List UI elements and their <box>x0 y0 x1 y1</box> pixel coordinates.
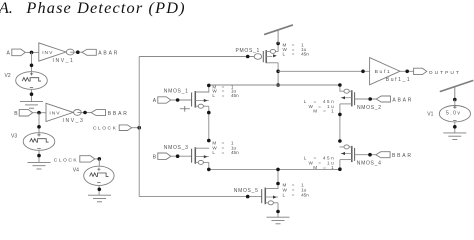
wire NMOS_2 drain to rail <box>339 85 341 91</box>
svg-text:M: M <box>313 109 317 114</box>
pmos PMOS_1 <box>254 49 278 63</box>
svg-text:Phase Detector (PD): Phase Detector (PD) <box>25 0 185 17</box>
junction Buf1 output <box>405 70 409 74</box>
wire Buf1 to OUTPUT <box>400 70 414 72</box>
junction at NMOS_1 gate wire <box>176 98 180 102</box>
nmos NMOS_3 <box>192 147 209 164</box>
junction below V2 <box>30 92 34 96</box>
svg-text:INV: INV <box>49 110 60 116</box>
input port CLOCK <box>119 125 132 131</box>
svg-text:1: 1 <box>331 165 335 170</box>
svg-text:BBAR: BBAR <box>392 153 413 159</box>
wire internal node rail <box>209 168 340 170</box>
svg-text:ABAR: ABAR <box>392 97 413 103</box>
junction NMOS_5 drain stub <box>276 182 280 186</box>
svg-text:M: M <box>313 165 317 170</box>
junction node X at Buf1 wire <box>276 70 280 74</box>
svg-text:V1: V1 <box>427 111 433 117</box>
wire NMOS_3 source to rail <box>208 162 210 169</box>
output port BBAR <box>91 110 105 116</box>
junction NMOS_5 drain on rail <box>276 168 280 172</box>
voltage source V4 <box>73 166 114 185</box>
wire node X to Buf1 <box>278 70 370 72</box>
junction below V3 <box>37 154 41 158</box>
wire V3 to ground <box>38 150 40 162</box>
wire port A to NMOS_1 gate <box>171 99 192 101</box>
wire V2 to ground <box>31 89 33 101</box>
junction at NMOS_2 gate <box>368 97 372 101</box>
output port ABAR <box>82 49 96 55</box>
svg-text:L: L <box>212 150 215 155</box>
svg-text:A.: A. <box>0 0 13 17</box>
wire NMOS_2 source down <box>339 104 341 141</box>
svg-text:=: = <box>222 93 225 98</box>
svg-text:CLOCK: CLOCK <box>54 158 78 164</box>
wire power to V1 <box>454 100 456 106</box>
svg-text:=: = <box>323 165 326 170</box>
nmos NMOS_1 <box>192 91 209 108</box>
voltage source V1 <box>427 106 470 122</box>
junction NMOS_5 source <box>276 210 280 214</box>
svg-text:V4: V4 <box>73 167 79 173</box>
inverter INV_3 <box>46 103 84 124</box>
junction NMOS_1 source <box>207 111 211 115</box>
wire down to V4 <box>98 159 100 166</box>
svg-text:=: = <box>323 109 326 114</box>
svg-text:L: L <box>304 156 307 161</box>
svg-text:L: L <box>283 52 286 57</box>
voltage source V2 <box>5 72 48 90</box>
svg-text:=: = <box>318 160 321 165</box>
wire PMOS_1 source up <box>277 43 279 51</box>
junction at PMOS_1 gate <box>246 55 250 59</box>
port B at NMOS_3 <box>158 153 171 159</box>
inverter INV_1 <box>39 43 75 64</box>
ground below V2 <box>20 102 43 109</box>
svg-text:B: B <box>14 111 18 117</box>
junction above V1 <box>453 98 457 102</box>
junction NMOS_4 source on rail <box>338 167 342 171</box>
wire NMOS_5 source to ground <box>277 203 279 217</box>
port BBAR at NMOS_4 <box>376 152 390 158</box>
svg-text:45n: 45n <box>231 93 239 98</box>
junction INV_3 output <box>83 111 87 115</box>
wire V4 to ground <box>98 185 100 195</box>
svg-text:OUTPUT: OUTPUT <box>429 70 461 76</box>
wire clock bus to NMOS_5 gate <box>139 196 262 198</box>
ground below V3 <box>28 162 51 169</box>
svg-text:BBAR: BBAR <box>108 111 129 117</box>
ground below V4 <box>88 195 111 202</box>
svg-text:=: = <box>318 104 321 109</box>
wire INV_1 out <box>70 51 82 53</box>
svg-text:NMOS_2: NMOS_2 <box>357 105 382 111</box>
wire clock bus to PMOS_1 gate <box>139 56 254 58</box>
junction NMOS_1 drain <box>207 84 211 88</box>
node A junction <box>30 51 34 55</box>
voltage source V3 <box>11 133 55 151</box>
svg-text:L: L <box>212 93 215 98</box>
junction NMOS_4 drain <box>338 139 342 143</box>
junction below V1 <box>453 125 457 129</box>
svg-text:V3: V3 <box>11 133 17 139</box>
wire B to INV_3 <box>33 112 46 114</box>
wire NMOS_1 source down <box>208 106 210 140</box>
junction at NMOS_5 gate <box>246 195 250 199</box>
junction NMOS_3 source on rail <box>207 168 211 172</box>
svg-text:Buf1: Buf1 <box>375 69 392 75</box>
buffer Buf1 <box>370 58 412 85</box>
port ABAR at NMOS_2 <box>376 96 390 102</box>
junction NMOS_2 source <box>338 113 342 117</box>
svg-text:45n: 45n <box>231 150 239 155</box>
svg-text:INV: INV <box>42 50 53 56</box>
wire CLOCK port to V4 <box>95 158 100 160</box>
ground below V1 <box>443 133 466 140</box>
wire NMOS_5 drain to rail <box>277 169 279 188</box>
wire A to INV_1 <box>25 51 39 53</box>
svg-text:INV_3: INV_3 <box>63 118 85 124</box>
svg-text:L: L <box>304 99 307 104</box>
junction CLOCK on bus <box>137 126 141 130</box>
input port A <box>12 49 25 56</box>
wire A node to V2 <box>31 52 33 71</box>
nmos NMOS_2 <box>340 89 355 106</box>
junction below V4 <box>98 188 102 192</box>
junction PMOS_1 source <box>276 42 280 46</box>
wire clock bus vertical <box>138 57 140 197</box>
port CLOCK at V4 <box>80 156 95 162</box>
junction INV_1 output <box>76 50 80 54</box>
svg-text:NMOS_1: NMOS_1 <box>164 89 189 95</box>
node B junction <box>37 111 41 115</box>
svg-text:B: B <box>153 154 157 160</box>
svg-text:A: A <box>7 51 11 57</box>
svg-text:1: 1 <box>331 109 335 114</box>
port A at NMOS_1 <box>158 97 171 103</box>
wire B node to V3 <box>38 113 40 133</box>
nmos NMOS_4 <box>340 145 355 162</box>
junction at NMOS_3 gate wire <box>176 154 180 158</box>
svg-text:A: A <box>153 98 157 104</box>
svg-text:=: = <box>314 156 317 161</box>
output port OUTPUT <box>414 68 427 74</box>
junction NMOS_3 drain <box>207 139 211 143</box>
junction node X on rail <box>276 83 280 87</box>
svg-text:=: = <box>222 150 225 155</box>
svg-text:ABAR: ABAR <box>98 51 119 57</box>
svg-text:45n: 45n <box>301 192 309 197</box>
wire CLOCK to bus <box>132 127 139 129</box>
junction NMOS_2 drain <box>338 83 342 87</box>
ground below NMOS_5 <box>267 217 290 224</box>
nmos NMOS_5 <box>262 188 278 205</box>
junction above V4 <box>98 157 102 161</box>
wire node X rail <box>209 84 340 86</box>
svg-text:PMOS_1: PMOS_1 <box>236 48 261 54</box>
svg-text:NMOS_3: NMOS_3 <box>164 145 189 151</box>
plus marker at NMOS_1 <box>180 106 190 112</box>
junction above V2 <box>30 64 34 68</box>
wire port B to NMOS_3 gate <box>171 155 192 157</box>
junction at NMOS_4 gate <box>368 153 372 157</box>
wire NMOS_2 gate to ABAR <box>355 98 377 100</box>
svg-text:V2: V2 <box>5 73 11 79</box>
junction above V3 <box>37 125 41 129</box>
svg-text:=: = <box>292 192 295 197</box>
junction Buf1 input <box>361 70 365 74</box>
wire PMOS_1 drain down <box>277 63 279 85</box>
svg-text:CLOCK: CLOCK <box>93 126 117 132</box>
svg-text:NMOS_4: NMOS_4 <box>357 160 382 166</box>
svg-text:=: = <box>314 99 317 104</box>
wire INV_3 out <box>77 112 91 114</box>
input port B <box>19 109 33 116</box>
wire NMOS_4 gate to BBAR <box>355 154 376 156</box>
svg-text:=: = <box>292 52 295 57</box>
svg-text:Buf1_1: Buf1_1 <box>386 77 411 83</box>
power symbol vdd above V1 <box>440 80 474 99</box>
svg-text:45n: 45n <box>301 52 309 57</box>
svg-text:NMOS_5: NMOS_5 <box>234 188 259 194</box>
wire NMOS_1 drain to rail <box>208 85 210 92</box>
svg-text:L: L <box>283 192 286 197</box>
svg-text:INV_1: INV_1 <box>53 58 75 64</box>
svg-text:5.0v: 5.0v <box>446 111 461 117</box>
wire V1 to ground <box>454 122 456 133</box>
wire NMOS_4 source to rail <box>339 160 341 170</box>
power symbol vdd above PMOS_1 <box>264 25 293 43</box>
